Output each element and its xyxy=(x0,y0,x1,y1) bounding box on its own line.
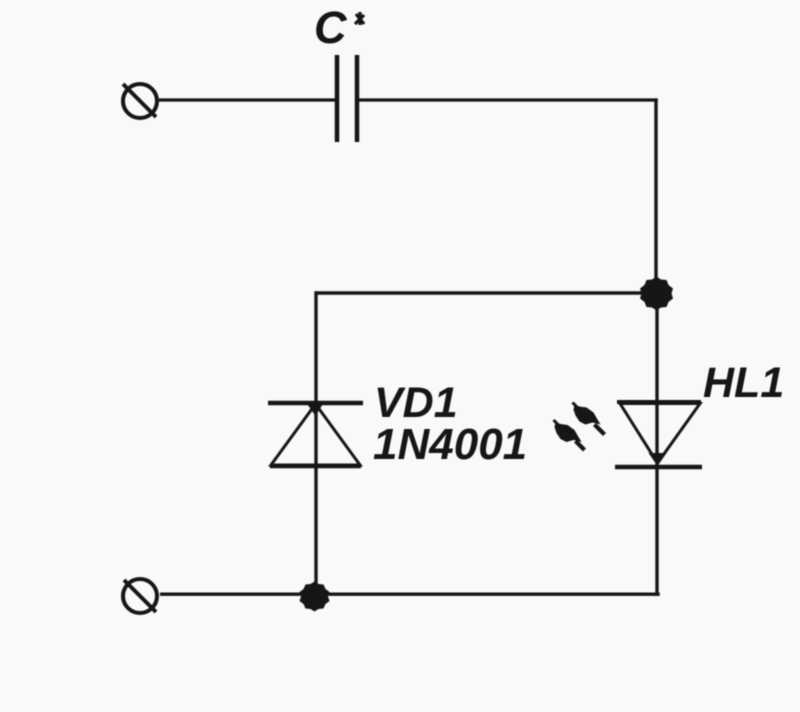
node junction B xyxy=(303,584,326,607)
node junction A xyxy=(644,279,668,303)
LED arrow 1 xyxy=(573,403,605,435)
wire (VD1 branch vertical) xyxy=(314,291,317,597)
wire (bottom horizontal) xyxy=(160,593,660,596)
LED arrow 2 xyxy=(554,420,585,450)
wire (right top vertical) xyxy=(654,98,657,295)
capacitor C* xyxy=(337,55,357,142)
diode VD1 triangle xyxy=(270,403,361,466)
wire xyxy=(357,98,658,101)
LED HL1 triangle xyxy=(620,404,700,467)
terminal X1 (top-left input) xyxy=(123,84,157,118)
label asterisk xyxy=(355,12,364,25)
wire (middle horizontal) xyxy=(316,291,652,294)
svg-text:C: C xyxy=(314,2,348,53)
svg-text:1N4001: 1N4001 xyxy=(373,420,527,469)
wire (LED branch vertical) xyxy=(655,293,658,596)
LED HL1 cathode bar xyxy=(615,465,702,470)
terminal X2 (bottom-left input) xyxy=(123,579,157,613)
wire xyxy=(159,98,337,101)
LED HL1 top line xyxy=(617,400,701,404)
diode VD1 cathode bar xyxy=(268,401,363,406)
svg-text:HL1: HL1 xyxy=(703,359,784,407)
